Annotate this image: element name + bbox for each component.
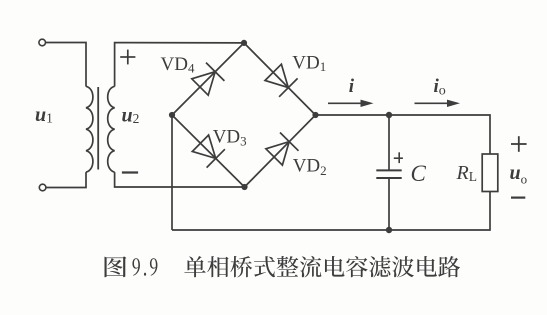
- wire secondary top to bridge top node: [115, 43, 244, 87]
- capacitor C wire bottom: [388, 179, 390, 230]
- svg-text:C: C: [411, 161, 427, 186]
- wire secondary bottom to bridge bottom node: [115, 172, 245, 187]
- node left vertex: [169, 112, 175, 118]
- node bottom vertex: [241, 184, 247, 190]
- svg-text:io: io: [434, 76, 446, 99]
- wire top-left to primary: [46, 43, 86, 87]
- wire output top rail: [316, 115, 491, 154]
- current arrow io: [415, 100, 461, 107]
- diode VD3: [192, 135, 225, 168]
- label plus output: [511, 136, 527, 152]
- capacitor C top plate: [376, 169, 401, 171]
- wire bridge edge L-T: [172, 43, 244, 115]
- diode VD1: [265, 64, 298, 97]
- svg-text:u2: u2: [122, 104, 140, 126]
- current arrow i: [328, 100, 374, 107]
- transformer secondary winding: [108, 86, 115, 172]
- svg-text:uo: uo: [510, 162, 528, 186]
- svg-text:i: i: [349, 76, 355, 97]
- transformer core: [97, 87, 99, 170]
- wire primary bottom to terminal: [46, 172, 86, 187]
- svg-text:u1: u1: [35, 104, 53, 126]
- label minus secondary: [122, 171, 138, 173]
- wire left vertex down to bottom rail: [171, 115, 173, 230]
- terminal top-left: [39, 39, 46, 46]
- wire bottom rail: [172, 192, 490, 231]
- wire bridge edge B-R: [245, 115, 316, 187]
- svg-text:VD3: VD3: [213, 126, 247, 148]
- terminal bottom-left: [39, 184, 46, 191]
- transformer primary winding: [86, 86, 93, 172]
- label plus secondary: [120, 50, 135, 65]
- node top vertex: [241, 40, 247, 46]
- label minus output: [511, 197, 525, 199]
- svg-text:VD4: VD4: [161, 54, 195, 76]
- label plus capacitor: [394, 152, 403, 163]
- node capacitor bottom junction: [386, 227, 392, 233]
- caption 图9.9 单相桥式整流电容滤波电路: [105, 256, 461, 278]
- diode VD2: [266, 133, 299, 166]
- svg-text:VD2: VD2: [293, 156, 327, 178]
- resistor RL body: [482, 154, 498, 192]
- svg-text:VD1: VD1: [292, 53, 326, 74]
- capacitor C wire top: [388, 115, 390, 170]
- capacitor C bottom plate: [376, 177, 401, 179]
- wire bridge edge T-R: [244, 43, 316, 115]
- svg-text:RL: RL: [456, 162, 477, 184]
- wire bridge edge L-B: [172, 115, 245, 187]
- diode VD4: [192, 63, 225, 96]
- node capacitor top junction: [386, 112, 392, 118]
- node right vertex: [312, 112, 318, 118]
